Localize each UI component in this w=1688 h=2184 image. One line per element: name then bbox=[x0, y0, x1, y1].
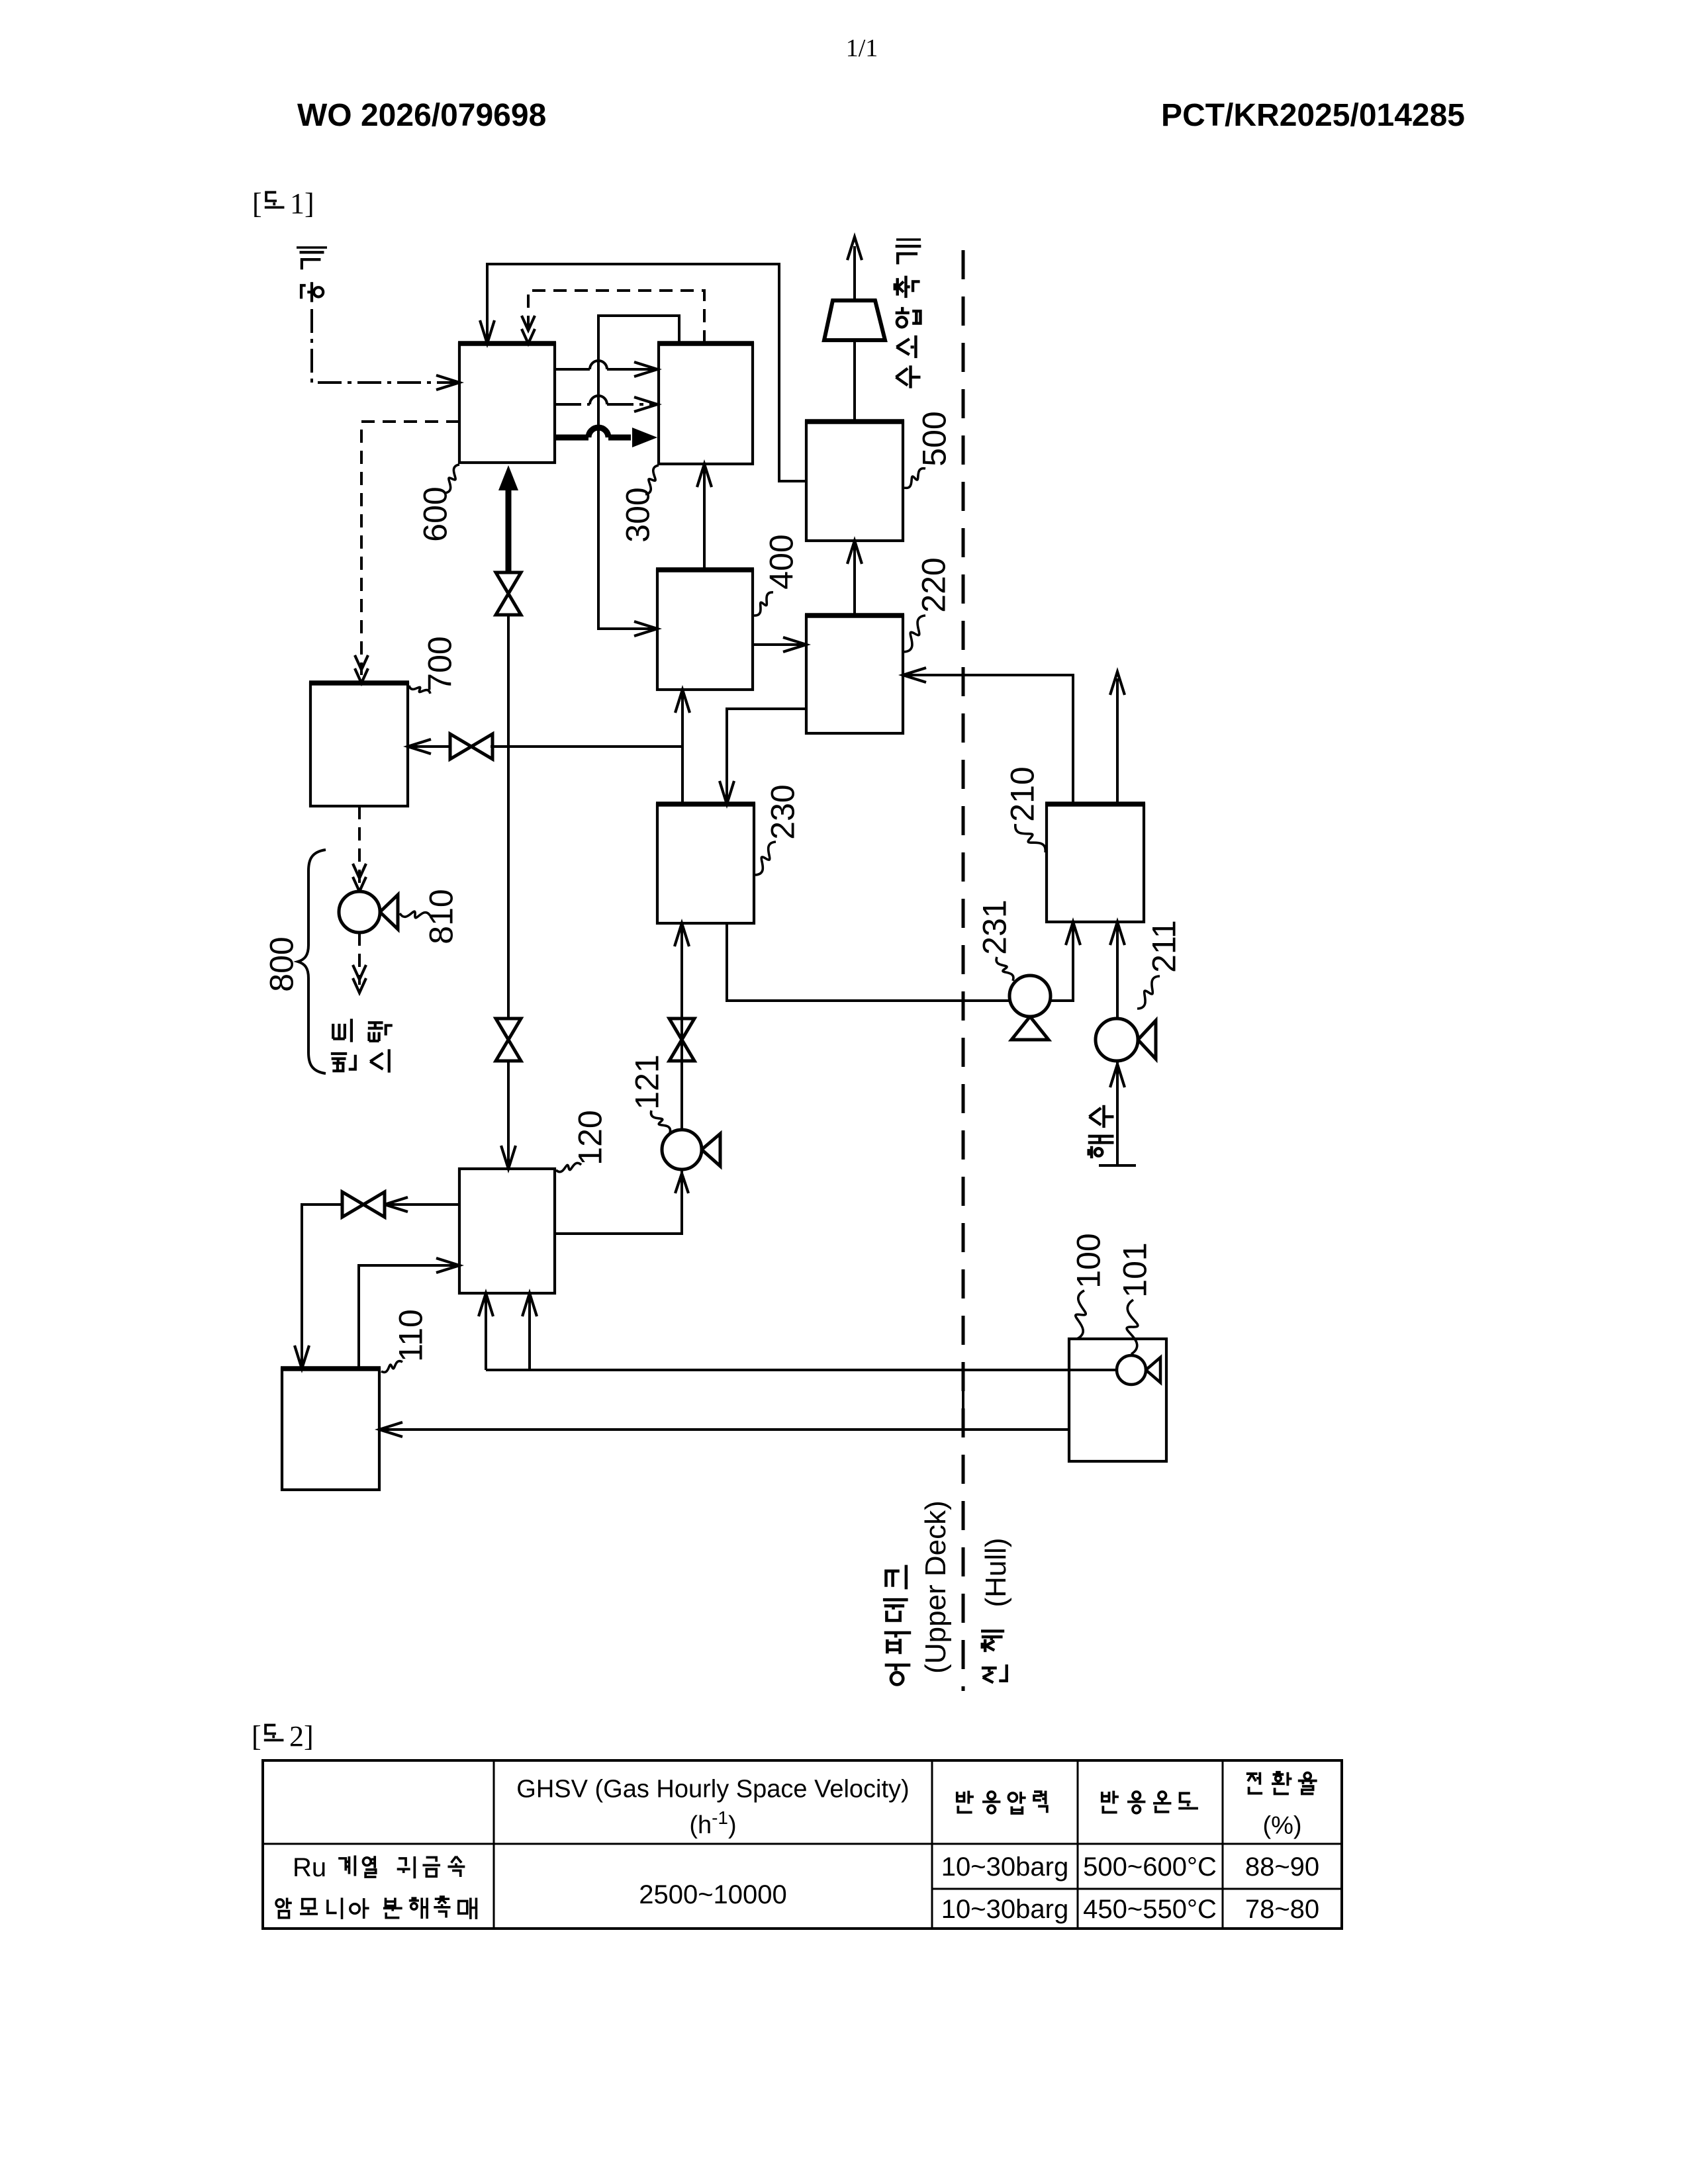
unit box 500 H2 purifier bbox=[806, 422, 903, 541]
svg-text:220: 220 bbox=[915, 557, 953, 612]
valve V3 on 700 branch bbox=[450, 734, 492, 759]
label 220 leader bbox=[904, 615, 925, 652]
svg-text:600: 600 bbox=[417, 486, 454, 541]
hydrogen compressor trapezoid bbox=[824, 300, 885, 340]
svg-text:121: 121 bbox=[629, 1054, 666, 1109]
wire 300 top to 400 inlet bbox=[598, 316, 679, 629]
wire branch 700 right part bbox=[491, 745, 682, 748]
wire 120 to valve V5 to 110 bbox=[385, 1203, 459, 1206]
svg-text:[: [ bbox=[252, 187, 262, 220]
svg-text:10~30barg: 10~30barg bbox=[941, 1895, 1068, 1924]
upper deck Korean label bbox=[883, 1565, 911, 1685]
wire 600 to 300 line 2 dash-dot bbox=[555, 403, 590, 406]
svg-text:(Upper Deck): (Upper Deck) bbox=[919, 1500, 952, 1674]
wire tee at deck bbox=[962, 1370, 964, 1430]
svg-text:100: 100 bbox=[1070, 1233, 1107, 1288]
wire 600 to 300 line 3 bold bbox=[555, 435, 588, 441]
vent stack Korean label line2 bbox=[368, 1023, 393, 1072]
wire 500 to compressor bbox=[853, 340, 856, 422]
valve V5 on 110 line bbox=[342, 1192, 385, 1217]
svg-text:211: 211 bbox=[1146, 920, 1183, 973]
label 121 leader bbox=[651, 1111, 670, 1133]
label 120 leader bbox=[556, 1163, 581, 1171]
svg-text:(Hull): (Hull) bbox=[980, 1537, 1012, 1607]
wire 210 to 220 bbox=[907, 675, 1073, 804]
label 100 bbox=[1070, 1233, 1107, 1288]
table header separator bbox=[263, 1843, 1342, 1845]
air label tick bbox=[297, 246, 327, 249]
svg-text:210: 210 bbox=[1004, 766, 1041, 821]
unit box 400 heat exchanger bbox=[657, 570, 753, 690]
valve V4 on 121 line bbox=[669, 1019, 694, 1061]
label 300 bbox=[620, 487, 657, 542]
svg-text:400: 400 bbox=[763, 534, 800, 589]
label 211 bbox=[1146, 920, 1183, 973]
wire pump 101 header bbox=[486, 1369, 1117, 1371]
label 700 leader bbox=[409, 686, 430, 694]
wire valve4 to 230 bottom bbox=[680, 927, 683, 1061]
wire riser into 120 left bbox=[485, 1297, 487, 1370]
label 231 leader bbox=[996, 957, 1013, 981]
seawater line start tick bbox=[1099, 1164, 1136, 1167]
unit box 100 seawater tank bbox=[1069, 1339, 1166, 1461]
svg-text:500~600°C: 500~600°C bbox=[1083, 1852, 1217, 1882]
svg-text:120: 120 bbox=[572, 1110, 609, 1165]
svg-text:700: 700 bbox=[422, 636, 459, 691]
pump 101 circle bbox=[1146, 1357, 1160, 1383]
pump 211 circle bbox=[1138, 1021, 1156, 1059]
vent stack Korean label line1 bbox=[331, 1019, 355, 1071]
unit box 110 NH3 tank bbox=[282, 1369, 379, 1490]
table outer border bbox=[263, 1760, 1342, 1929]
unit box 700 vent treatment bbox=[310, 683, 408, 806]
wire branch to 700 left part bbox=[408, 745, 452, 748]
table column line 4 bbox=[1222, 1760, 1224, 1929]
svg-text:WO 2026/079698: WO 2026/079698 bbox=[297, 98, 546, 133]
table header conversion bbox=[1246, 1772, 1262, 1794]
svg-text:[: [ bbox=[252, 1720, 261, 1752]
label 500 bbox=[916, 411, 953, 466]
hydrogen compressor label tick bbox=[896, 238, 921, 241]
wire riser into 120 right bbox=[528, 1297, 531, 1370]
label 500 leader bbox=[904, 469, 925, 488]
label 810 leader bbox=[400, 911, 430, 918]
pump 810 circle bbox=[380, 895, 398, 929]
seawater Korean label bbox=[1088, 1105, 1114, 1158]
table column line 2 bbox=[931, 1760, 933, 1929]
svg-text:230: 230 bbox=[765, 784, 802, 839]
wire 110 to 120 bbox=[359, 1265, 455, 1369]
svg-text:78~80: 78~80 bbox=[1245, 1895, 1319, 1924]
label 101 leader bbox=[1127, 1300, 1138, 1354]
svg-text:800: 800 bbox=[263, 936, 301, 991]
label 810 bbox=[423, 889, 460, 944]
label 121 bbox=[629, 1054, 666, 1109]
label 600 leader bbox=[445, 465, 459, 493]
wire trunk valve2 to 120 bbox=[507, 1061, 510, 1165]
svg-text:810: 810 bbox=[423, 889, 460, 944]
dashed wire 700 to pump 810 bbox=[358, 806, 361, 884]
label 120 bbox=[572, 1110, 609, 1165]
wire bold NH3 feed arrow into 600 bbox=[498, 465, 518, 490]
air stream label Korean gong-gi bbox=[300, 252, 324, 302]
label 211 leader bbox=[1137, 976, 1160, 1009]
svg-text:110: 110 bbox=[393, 1309, 430, 1362]
unit box 230 scrubber bbox=[657, 804, 754, 923]
svg-text:2]: 2] bbox=[289, 1720, 314, 1752]
label 230 leader bbox=[755, 842, 776, 875]
brace 800 bbox=[298, 850, 326, 1073]
table header reaction temperature bbox=[1102, 1791, 1119, 1813]
pump 121 circle bbox=[702, 1134, 720, 1166]
label 400 leader bbox=[754, 592, 773, 615]
label 210 bbox=[1004, 766, 1041, 821]
table data row separator bbox=[932, 1888, 1342, 1890]
valve V2 on feed trunk bbox=[496, 1019, 521, 1061]
wire seawater to pump 211 bbox=[1116, 1062, 1119, 1165]
label 110 leader bbox=[381, 1361, 402, 1373]
wire 230 to 400 riser bbox=[681, 694, 684, 804]
table column line 3 bbox=[1077, 1760, 1079, 1929]
label 101 bbox=[1117, 1242, 1154, 1297]
svg-text:450~550°C: 450~550°C bbox=[1083, 1895, 1217, 1924]
unit box 120 NH3 vaporizer bbox=[459, 1169, 555, 1293]
label 210 leader bbox=[1015, 824, 1045, 852]
svg-text:231: 231 bbox=[976, 899, 1013, 954]
svg-text:(%): (%) bbox=[1262, 1811, 1301, 1839]
wire 220 to 500 riser bbox=[853, 545, 856, 615]
svg-text:2500~10000: 2500~10000 bbox=[639, 1880, 787, 1909]
dash-dot air line into 600 bbox=[312, 309, 455, 383]
wire 400 to 220 bbox=[753, 643, 802, 646]
valve V1 on feed trunk bbox=[496, 572, 521, 615]
upper deck english label bbox=[919, 1500, 952, 1674]
label 700 bbox=[422, 636, 459, 691]
wire pump 121 up to valve bbox=[680, 1019, 683, 1130]
deck boundary dashed line bbox=[962, 250, 965, 1691]
label 800 bbox=[263, 936, 301, 991]
unit box 220 condenser bbox=[806, 615, 903, 733]
label 231 bbox=[976, 899, 1013, 954]
wire 600 to 300 line 1 bbox=[555, 368, 590, 371]
svg-text:1/1: 1/1 bbox=[846, 34, 878, 62]
wire trunk valve1 to valve2 bbox=[507, 615, 510, 1019]
pump 231 circle bbox=[1011, 1017, 1049, 1040]
dashed wire 600 to 700 bbox=[361, 422, 459, 675]
label 110 bbox=[393, 1309, 430, 1362]
wire 210 discharge arrow up bbox=[1116, 678, 1119, 804]
svg-text:500: 500 bbox=[916, 411, 953, 466]
wire 500 to 600 recycle loop bbox=[487, 264, 807, 481]
svg-text:GHSV (Gas Hourly Space Velocit: GHSV (Gas Hourly Space Velocity) bbox=[516, 1775, 909, 1803]
table column line 1 bbox=[493, 1760, 495, 1929]
unit box 600 combustor bbox=[459, 343, 555, 463]
wire 100 to 110 bbox=[383, 1428, 1069, 1431]
svg-text:88~90: 88~90 bbox=[1245, 1852, 1319, 1882]
table cell Ru catalyst line2 bbox=[276, 1897, 292, 1917]
wire 220 to 230 downcomer bbox=[727, 709, 806, 800]
label 300 leader bbox=[645, 465, 659, 494]
svg-text:1]: 1] bbox=[290, 187, 314, 220]
label 100 leader bbox=[1076, 1291, 1086, 1339]
wire pump 211 to 210 bbox=[1116, 926, 1119, 1019]
wire compressor discharge arrow up bbox=[853, 246, 856, 300]
label 600 bbox=[417, 486, 454, 541]
svg-text:300: 300 bbox=[620, 487, 657, 542]
wire 230 drain to pump 231 to 210 bbox=[727, 923, 1073, 1001]
dashed wire 300 to 600 bbox=[528, 291, 704, 343]
unit box 210 cooler bbox=[1047, 804, 1144, 922]
wire 120 to pump 121 to 230 bbox=[555, 1171, 682, 1234]
unit box 300 cracker bbox=[659, 343, 753, 464]
table header reaction pressure bbox=[957, 1791, 974, 1813]
label 400 bbox=[763, 534, 800, 589]
svg-text:PCT/KR2025/014285: PCT/KR2025/014285 bbox=[1161, 98, 1465, 133]
svg-text:10~30barg: 10~30barg bbox=[941, 1852, 1068, 1882]
hull english label bbox=[980, 1537, 1012, 1607]
svg-text:101: 101 bbox=[1117, 1242, 1154, 1297]
wire 400 to 300 riser bbox=[703, 468, 706, 570]
label 220 bbox=[915, 557, 953, 612]
svg-text:Ru: Ru bbox=[293, 1853, 326, 1882]
hydrogen compressor Korean label bbox=[895, 246, 921, 388]
label 230 bbox=[765, 784, 802, 839]
dashed vent outlet below 810 bbox=[358, 933, 361, 985]
hull Korean label bbox=[981, 1631, 1007, 1683]
